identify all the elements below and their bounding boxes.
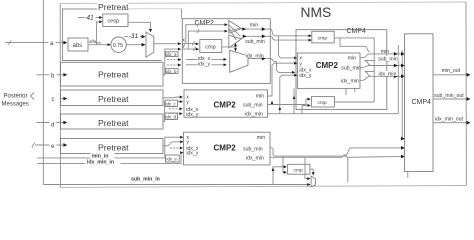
mux T2 submin triangle: [229, 35, 242, 48]
svg-text:sub_min_out: sub_min_out: [434, 93, 464, 99]
idx_c register box: [165, 100, 178, 106]
svg-text:idx_y: idx_y: [186, 151, 199, 157]
wire idx_min_out: [433, 117, 470, 123]
wire idx_d to boxA idx_y: [169, 113, 182, 115]
multiplier 0.75: [111, 37, 126, 52]
svg-text:abs: abs: [73, 43, 83, 49]
svg-text:idx_y: idx_y: [299, 73, 312, 79]
mux T1 min triangle: [229, 21, 242, 34]
wire cesp to mux select: [128, 22, 151, 32]
wire abs to 0.75: [88, 44, 110, 46]
svg-text:idx_min: idx_min: [379, 72, 397, 78]
wire e input: [32, 141, 67, 150]
vertical stub from bump: [347, 158, 349, 183]
merge S sub_min: [360, 56, 404, 68]
svg-text:c: c: [52, 97, 55, 103]
svg-text:-31: -31: [129, 33, 139, 40]
mux3 idx trapezoid: [230, 50, 248, 72]
merge S min: [360, 46, 404, 57]
svg-text:idx_min: idx_min: [245, 112, 263, 118]
mux pretreat: [146, 32, 154, 57]
wire boxB sub_min jog down and right: [270, 148, 404, 156]
svg-text:Pretreat: Pretreat: [98, 118, 129, 128]
wire idx_min out of CMP2: [245, 53, 294, 73]
wire into bottom mux first: [305, 158, 310, 179]
svg-text:cmp: cmp: [294, 169, 304, 174]
wire d out to boxA y: [163, 102, 183, 122]
CMP4 expanded box: [296, 30, 387, 110]
vertical wire left bus: [42, 0, 44, 185]
svg-text:cmp: cmp: [318, 101, 328, 106]
svg-text:idx_min_out: idx_min_out: [435, 117, 464, 123]
Posterior Messages label: [2, 93, 35, 108]
wire into bottom cmp second: [283, 157, 286, 173]
svg-text:Messages: Messages: [2, 102, 29, 108]
wire idx_y into mux3: [186, 61, 226, 68]
svg-text:sub_min: sub_min: [341, 66, 361, 72]
svg-text:CMP4: CMP4: [347, 28, 367, 35]
short verticals under mid CMP2: [346, 88, 355, 95]
wire boxA min up to mid CMP2 y: [268, 63, 297, 104]
merge S idx_min: [360, 71, 404, 80]
select stubs to merges: [365, 61, 375, 72]
Pretreat expanded title: [97, 2, 129, 12]
wire const -31 into mux: [124, 33, 145, 40]
cesp box: [103, 14, 128, 27]
wire b input: [37, 71, 67, 80]
svg-text:Pretreat: Pretreat: [98, 2, 129, 12]
wire idx_x into mux3: [186, 55, 226, 62]
wire c input: [52, 97, 67, 103]
svg-text:CMP2: CMP2: [214, 144, 237, 153]
svg-text:idx_b: idx_b: [166, 69, 177, 74]
idx_e register box: [166, 155, 180, 162]
wire const -41 into cesp: [78, 14, 102, 21]
wire e out to boxB y: [163, 142, 183, 146]
bottom mux: [311, 176, 315, 187]
crossing wires into T2: [229, 25, 241, 40]
wire x to cmp: [186, 42, 199, 45]
svg-text:idx_c: idx_c: [166, 102, 177, 107]
wire abs branch up to cesp: [97, 22, 103, 45]
Pretreat box e: [61, 139, 164, 154]
svg-text:NMS: NMS: [301, 5, 332, 20]
cmp box top CMP4: [312, 31, 334, 43]
svg-text:sub_min: sub_min: [245, 39, 265, 45]
cmp2 bottom out wire: [334, 101, 374, 103]
Pretreat expanded box: [63, 9, 162, 61]
wire idx_c to boxA idx_x: [169, 108, 182, 110]
svg-text:idx_min: idx_min: [246, 155, 264, 161]
cmp box bottom merge: [288, 164, 310, 174]
wire cmp to bottom mux select: [310, 169, 313, 175]
wire boxB idx_min to final CMP4: [270, 155, 404, 158]
wire min_out: [433, 68, 470, 75]
svg-text:idx_a: idx_a: [166, 52, 177, 57]
svg-text:idx_min: idx_min: [246, 53, 264, 59]
wire pretreat b out to CMP2 y: [163, 49, 181, 75]
svg-text:idx_y: idx_y: [198, 62, 211, 68]
wire cmp select to T2 and mux3: [222, 44, 236, 51]
CMP2 black box B: [184, 132, 271, 165]
svg-text:Posterior: Posterior: [4, 94, 28, 100]
wire min out of CMP2: [242, 23, 312, 58]
idx_b register box: [166, 69, 179, 74]
wire sub_min_in up to bottom cmp: [273, 167, 286, 185]
cmp box expanded CMP2: [200, 40, 222, 53]
svg-text:CMP2: CMP2: [214, 101, 237, 110]
svg-text:cesp: cesp: [108, 19, 120, 25]
svg-text:sub_min: sub_min: [243, 146, 263, 152]
svg-text:sub_min_in: sub_min_in: [131, 177, 160, 183]
wire sub_min out of CMP2: [242, 35, 312, 45]
svg-text:min: min: [257, 135, 265, 141]
svg-text:min: min: [381, 49, 389, 55]
Pretreat box c: [61, 90, 164, 106]
svg-text:sub_min: sub_min: [378, 57, 398, 63]
wire min from bus down to final CMP4: [402, 114, 404, 139]
svg-text:idx_min: idx_min: [341, 79, 359, 85]
idx_d register box: [165, 113, 178, 120]
wire idx_a to CMP2 idx_x: [167, 59, 181, 61]
stub below final CMP4: [407, 172, 409, 178]
Pretreat box d: [61, 114, 164, 129]
arrow up on riser: [272, 168, 275, 172]
svg-text:cmp: cmp: [205, 45, 215, 51]
svg-text:idx_min_in: idx_min_in: [87, 160, 114, 166]
wire boxA sub_min to cmp2 bottom: [268, 99, 311, 114]
svg-text:-41: -41: [84, 14, 94, 21]
CMP4 final box: [405, 34, 434, 172]
CMP2 expanded box: [182, 19, 270, 84]
wire boxA idx_min long right: [268, 45, 403, 114]
cmp box bottom CMP4: [311, 97, 334, 107]
svg-text:sub_min: sub_min: [243, 103, 263, 109]
svg-text:d: d: [51, 122, 54, 128]
node alfa label: [89, 39, 101, 45]
svg-text:y: y: [186, 99, 189, 105]
svg-text:y: y: [182, 43, 185, 49]
wire idx_e to boxB idx_x: [170, 147, 183, 149]
wire 0.75 to mux: [126, 44, 145, 46]
wire x to T1 top: [183, 23, 228, 44]
abs box: [68, 38, 88, 51]
wire sub_min_in: [43, 177, 310, 185]
wire min_in to boxB x: [37, 137, 183, 160]
wire c out to boxA x: [163, 96, 183, 99]
wire a input: [5, 39, 67, 48]
svg-text:min: min: [250, 23, 258, 29]
idx_a register box: [166, 52, 179, 57]
wire y to cmp: [188, 48, 198, 50]
wire boxA idx_min up to mid CMP2 idx_y: [279, 75, 297, 114]
wire d input: [37, 120, 67, 129]
svg-text:idx_e: idx_e: [167, 157, 178, 162]
svg-text:Pretreat: Pretreat: [98, 142, 129, 152]
svg-text:CMP2: CMP2: [316, 61, 339, 70]
svg-text:0.75: 0.75: [113, 43, 124, 49]
cmp1 out to selects: [334, 38, 374, 102]
wire idx_b to CMP2 idx_y: [167, 64, 181, 66]
svg-text:Pretreat: Pretreat: [98, 94, 129, 104]
svg-text:y: y: [186, 140, 189, 146]
svg-text:Pretreat: Pretreat: [98, 70, 129, 80]
NMS outer box: [60, 2, 466, 187]
svg-text:min: min: [256, 94, 264, 100]
svg-text:min: min: [348, 55, 356, 61]
wire idx_min_in to boxB idx_y: [37, 153, 183, 166]
Pretreat box b: [61, 62, 164, 86]
wire mux out to CMP2 x: [154, 43, 181, 45]
svg-text:idx_d: idx_d: [166, 114, 177, 119]
wire sub_min_out: [433, 93, 470, 99]
bus slashes on x y wires: [192, 41, 195, 51]
svg-text:CMP4: CMP4: [412, 99, 432, 106]
wire riser boxA sub_min up into CMP4: [293, 89, 296, 114]
svg-text:idx_y: idx_y: [186, 112, 199, 118]
CMP2 black box A: [184, 90, 268, 118]
wire y to T1 bottom: [183, 29, 228, 49]
CMP2 black box mid: [297, 53, 361, 88]
svg-text:cmp: cmp: [318, 37, 328, 42]
svg-text:min_out: min_out: [442, 68, 461, 74]
